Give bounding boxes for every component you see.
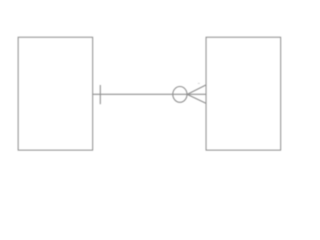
crow's foot bottom prong (187, 94, 206, 103)
entity box left (18, 37, 92, 150)
faint artifact dash (198, 83, 200, 84)
entity box right (206, 37, 281, 150)
cardinality tick (one) (99, 85, 101, 104)
wire: relationship line (93, 93, 207, 95)
crow's foot top prong (187, 85, 206, 95)
cardinality ring (zero/optional) (173, 87, 187, 103)
